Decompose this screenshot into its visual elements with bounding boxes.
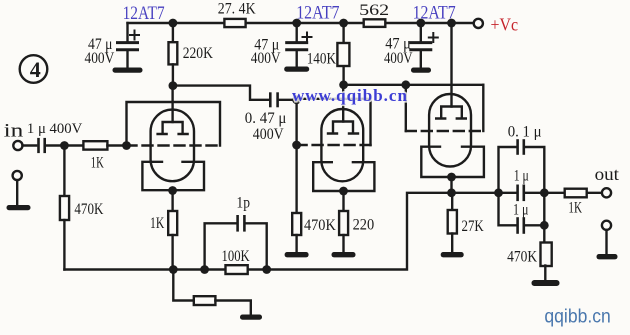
- svg-text:400V: 400V: [251, 50, 281, 67]
- terminal in: [13, 141, 22, 150]
- node rail 220K: [169, 19, 178, 28]
- wire in to C2: [23, 144, 37, 146]
- anode lead: [171, 86, 173, 122]
- svg-text:www.qqibb.cn: www.qqibb.cn: [292, 86, 408, 105]
- capacitor C8 1u mid: [518, 186, 545, 200]
- svg-text:400V: 400V: [85, 50, 115, 67]
- svg-text:27. 4K: 27. 4K: [218, 1, 256, 18]
- svg-text:1p: 1p: [236, 195, 250, 212]
- node rail plate3: [447, 19, 456, 28]
- svg-text:12AT7: 12AT7: [123, 3, 165, 24]
- wire top supply rail: [128, 22, 474, 24]
- resistor R11 1K out: [544, 189, 602, 198]
- svg-text:220: 220: [353, 217, 375, 234]
- capacitor C6 47u 400V right: [411, 23, 438, 73]
- resistor R10 470K out: [541, 225, 552, 280]
- resistor 27.4K: [224, 19, 245, 27]
- capacitor C2 1u 400V: [39, 139, 65, 152]
- wire grid3 feed: [344, 84, 484, 86]
- capacitor C7 0.1u loop: [499, 141, 545, 193]
- node grid3 corner: [401, 80, 410, 89]
- node plate2: [339, 80, 348, 89]
- resistor R1 1K grid stopper: [64, 141, 126, 149]
- svg-text:220K: 220K: [183, 45, 214, 62]
- node rail 140K: [339, 19, 348, 28]
- svg-text:1 μ: 1 μ: [514, 167, 529, 184]
- anode plate: [158, 122, 188, 134]
- terminal +Vc: [474, 19, 483, 28]
- svg-text:out: out: [595, 164, 620, 184]
- ground R9: [441, 252, 464, 257]
- node grid2: [292, 141, 301, 150]
- capacitor C3 1p loop: [205, 216, 267, 269]
- ground R7: [285, 252, 309, 257]
- svg-text:0. 1 μ: 0. 1 μ: [508, 124, 542, 141]
- svg-text:12AT7: 12AT7: [296, 3, 339, 24]
- ground feedback: [240, 315, 262, 320]
- cathode box: [142, 162, 204, 190]
- svg-text:27K: 27K: [462, 218, 485, 235]
- grid wire loop: [127, 102, 221, 146]
- node C9: [540, 221, 549, 230]
- capacitor C1 47u 400V: [113, 31, 143, 73]
- capacitor C5 47u 400V mid: [284, 23, 311, 72]
- svg-text:12AT7: 12AT7: [413, 3, 456, 24]
- svg-text:+Vc: +Vc: [491, 15, 519, 35]
- resistor R2 470K: [60, 146, 69, 270]
- svg-text:562: 562: [359, 2, 389, 19]
- cathode node: [168, 186, 177, 195]
- resistor R7 470K grid2: [292, 145, 301, 252]
- svg-text:qqibb.cn: qqibb.cn: [544, 307, 610, 328]
- ground R10: [532, 280, 560, 286]
- node input: [60, 141, 69, 150]
- node outL: [494, 188, 503, 197]
- terminal out ground: [602, 221, 611, 230]
- capacitor C9 1u bottom loop: [499, 193, 545, 233]
- svg-text:in: in: [4, 121, 24, 142]
- svg-text:1K: 1K: [91, 155, 104, 172]
- node grid1: [122, 141, 131, 150]
- capacitor C4 0.47u 400V: [270, 94, 296, 106]
- svg-text:1 μ: 1 μ: [513, 201, 529, 218]
- svg-text:400V: 400V: [253, 126, 284, 143]
- wire plate1 to C4: [173, 86, 268, 100]
- svg-text:400V: 400V: [384, 50, 413, 67]
- ground R8: [332, 252, 356, 257]
- ground out jack: [597, 230, 618, 260]
- node rail C5: [292, 19, 301, 28]
- svg-text:0. 47 μ: 0. 47 μ: [245, 110, 287, 127]
- svg-text:4: 4: [30, 57, 41, 82]
- svg-text:470K: 470K: [74, 201, 103, 218]
- node C4 out: [292, 95, 301, 104]
- resistor 562: [364, 19, 386, 27]
- symbol circled 4: [20, 55, 48, 83]
- wire rail left drop to C1: [126, 23, 128, 41]
- node cathode3: [447, 188, 456, 197]
- svg-text:140K: 140K: [307, 51, 337, 68]
- wire cathode3 to output: [452, 192, 517, 194]
- grid dashed: [127, 144, 221, 146]
- tube V1 12AT7a: [127, 86, 221, 195]
- tube V3 12AT7c: [406, 23, 484, 181]
- node fb1: [169, 265, 178, 274]
- resistor R6 140K: [337, 23, 349, 85]
- node rail C6: [416, 19, 425, 28]
- resistor R9 27K: [448, 193, 457, 252]
- svg-text:470K: 470K: [507, 249, 537, 266]
- resistor R4 100K: [226, 265, 248, 274]
- resistor 220K: [169, 23, 178, 86]
- resistor R8 220 cathode2: [339, 191, 348, 252]
- svg-text:1 μ 400V: 1 μ 400V: [27, 121, 83, 137]
- wire feedback bottom rail: [64, 193, 451, 270]
- svg-text:1K: 1K: [568, 200, 582, 217]
- resistor R3 1K cathode: [168, 191, 177, 270]
- terminal in ground: [13, 171, 22, 180]
- svg-text:1K: 1K: [150, 215, 165, 232]
- node outR: [540, 188, 549, 197]
- terminal out: [602, 188, 611, 197]
- node plate1: [169, 81, 178, 90]
- ground input jack: [7, 180, 31, 210]
- resistor R5 feedback bottom: [173, 270, 251, 315]
- wire cathode3: [450, 177, 452, 193]
- tube V2 12AT7b: [297, 85, 375, 196]
- node fb2: [200, 265, 209, 274]
- svg-text:100K: 100K: [222, 248, 251, 265]
- svg-text:470K: 470K: [304, 217, 336, 234]
- envelope: [151, 110, 194, 182]
- node fb3: [262, 265, 271, 274]
